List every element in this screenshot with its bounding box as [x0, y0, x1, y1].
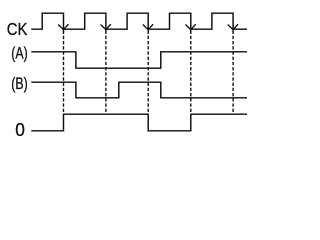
svg-text:(A): (A) [11, 44, 27, 62]
svg-text:CK: CK [7, 19, 28, 39]
svg-text:(B): (B) [11, 75, 27, 93]
svg-text:0: 0 [15, 119, 25, 140]
